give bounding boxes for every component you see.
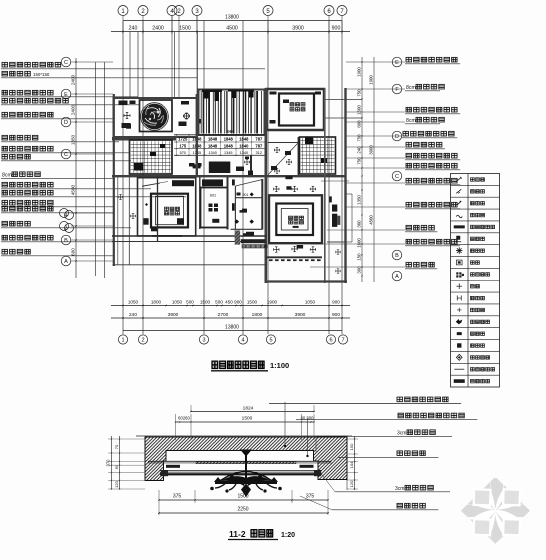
svg-text:1: 1: [121, 338, 124, 344]
svg-text:600: 600: [357, 120, 362, 128]
svg-text:4500: 4500: [226, 26, 238, 32]
svg-text:4500: 4500: [71, 184, 76, 195]
svg-text:60: 60: [114, 464, 119, 469]
svg-text:11-2: 11-2: [229, 529, 246, 539]
svg-text:787: 787: [255, 136, 263, 141]
svg-text:C: C: [64, 60, 68, 66]
svg-text:6: 6: [329, 338, 332, 344]
svg-text:500: 500: [215, 300, 223, 305]
svg-text:360: 360: [357, 220, 362, 228]
svg-text:D: D: [395, 134, 399, 140]
svg-text:3: 3: [202, 338, 205, 344]
svg-text:3cm: 3cm: [397, 431, 406, 437]
svg-text:8cm: 8cm: [406, 85, 416, 91]
svg-text:1900: 1900: [369, 75, 374, 85]
svg-text:3900: 3900: [295, 312, 306, 318]
svg-text:150*150: 150*150: [33, 72, 50, 77]
svg-text:D: D: [64, 120, 68, 126]
svg-text:375: 375: [173, 494, 182, 500]
svg-text:901: 901: [243, 193, 249, 197]
svg-text:1900: 1900: [267, 300, 278, 305]
svg-text:2: 2: [65, 226, 68, 232]
svg-text:1:100: 1:100: [270, 361, 289, 370]
svg-text:1500: 1500: [357, 105, 362, 115]
svg-text:60260: 60260: [178, 416, 190, 421]
svg-text:4500: 4500: [369, 215, 374, 225]
svg-text:2700: 2700: [218, 312, 229, 318]
svg-text:8cm: 8cm: [406, 118, 416, 124]
svg-text:A: A: [395, 274, 399, 280]
svg-text:1050: 1050: [172, 300, 183, 305]
svg-text:13800: 13800: [225, 325, 239, 331]
svg-text:4: 4: [65, 213, 68, 219]
svg-text:1500: 1500: [200, 300, 211, 305]
svg-text:7: 7: [341, 338, 344, 344]
svg-text:601: 601: [210, 194, 216, 198]
svg-text:2400: 2400: [71, 74, 76, 85]
svg-text:3900: 3900: [168, 312, 179, 318]
svg-text:900: 900: [332, 300, 340, 305]
svg-text:570: 570: [180, 151, 186, 155]
svg-text:1840: 1840: [239, 143, 249, 148]
svg-text:1848: 1848: [208, 143, 218, 148]
svg-text:375: 375: [306, 494, 315, 500]
svg-text:E: E: [64, 92, 68, 98]
svg-text:70: 70: [114, 444, 119, 449]
svg-text:A: A: [64, 259, 68, 265]
svg-text:240: 240: [129, 26, 138, 32]
svg-text:1500: 1500: [179, 26, 191, 32]
svg-text:2400: 2400: [152, 26, 164, 32]
svg-text:4: 4: [241, 338, 244, 344]
svg-text:750: 750: [357, 134, 362, 142]
svg-text:96: 96: [227, 129, 232, 134]
svg-text:150: 150: [349, 443, 354, 450]
svg-text:1600: 1600: [357, 238, 362, 248]
svg-text:1800: 1800: [252, 312, 263, 318]
svg-text:2400: 2400: [71, 104, 76, 115]
svg-text:3900: 3900: [292, 26, 304, 32]
svg-text:900: 900: [234, 300, 242, 305]
svg-text:1725: 1725: [178, 136, 188, 141]
svg-text:1345: 1345: [224, 151, 232, 155]
svg-text:5: 5: [269, 338, 272, 344]
svg-text:175: 175: [179, 143, 187, 148]
svg-text:1340: 1340: [240, 151, 248, 155]
svg-text:500: 500: [186, 300, 194, 305]
svg-text:1:20: 1:20: [281, 532, 295, 539]
svg-text:C: C: [395, 174, 399, 180]
svg-text:104: 104: [349, 461, 354, 468]
svg-text:787: 787: [255, 143, 263, 148]
svg-text:B: B: [395, 253, 399, 259]
svg-text:150: 150: [357, 253, 362, 261]
svg-text:1350: 1350: [357, 195, 362, 205]
svg-text:C: C: [64, 152, 68, 158]
svg-text:E: E: [395, 60, 399, 66]
svg-text:450: 450: [225, 300, 233, 305]
svg-text:600: 600: [71, 248, 76, 256]
svg-text:1848: 1848: [239, 136, 249, 141]
svg-text:2250: 2250: [237, 507, 248, 513]
svg-text:1848: 1848: [224, 143, 234, 148]
svg-text:1500: 1500: [237, 494, 248, 500]
svg-text:1050: 1050: [128, 300, 139, 305]
svg-text:2: 2: [141, 338, 144, 344]
svg-text:900: 900: [332, 26, 341, 32]
svg-text:8cm: 8cm: [2, 173, 12, 179]
svg-text:1824: 1824: [243, 406, 254, 412]
svg-text:900: 900: [332, 312, 340, 318]
svg-text:3cm: 3cm: [395, 486, 404, 492]
svg-text:120: 120: [349, 480, 354, 487]
svg-text:750: 750: [357, 89, 362, 97]
svg-text:13800: 13800: [225, 15, 239, 21]
svg-text:312: 312: [256, 151, 262, 155]
svg-text:1848: 1848: [224, 136, 234, 141]
svg-text:120: 120: [114, 480, 119, 487]
svg-text:1500: 1500: [247, 300, 258, 305]
svg-text:B: B: [64, 238, 68, 244]
svg-text:1340: 1340: [208, 151, 216, 155]
svg-text:240: 240: [129, 312, 137, 318]
svg-text:1848: 1848: [208, 136, 218, 141]
svg-text:3900: 3900: [369, 145, 374, 155]
svg-text:1800: 1800: [151, 300, 162, 305]
svg-text:1050: 1050: [305, 300, 316, 305]
svg-text:1500: 1500: [242, 416, 253, 422]
svg-text:1900: 1900: [357, 67, 362, 77]
svg-text:1350: 1350: [71, 134, 76, 145]
